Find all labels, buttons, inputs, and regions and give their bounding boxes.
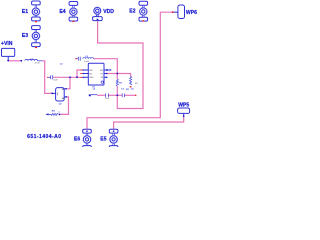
svg-text:E1: E1: [22, 9, 28, 15]
svg-text:GND: GND: [89, 77, 94, 79]
svg-text:651-1404-A0: 651-1404-A0: [27, 134, 61, 140]
svg-text:10k: 10k: [135, 83, 138, 85]
svg-text:0: 0: [59, 112, 60, 114]
svg-text:E4: E4: [59, 9, 65, 15]
svg-text:E3: E3: [22, 33, 28, 39]
svg-text:E6: E6: [74, 137, 80, 143]
svg-text:E2: E2: [129, 9, 135, 15]
svg-text:1.0uH: 1.0uH: [84, 61, 90, 63]
svg-text:+VIN: +VIN: [1, 41, 13, 47]
svg-text:WP6: WP6: [186, 10, 197, 16]
svg-text:SW: SW: [100, 70, 103, 72]
svg-text:WP5: WP5: [178, 102, 189, 108]
svg-text:4.7uH: 4.7uH: [35, 63, 41, 65]
svg-text:VDD: VDD: [103, 9, 114, 15]
svg-text:E5: E5: [100, 137, 106, 143]
